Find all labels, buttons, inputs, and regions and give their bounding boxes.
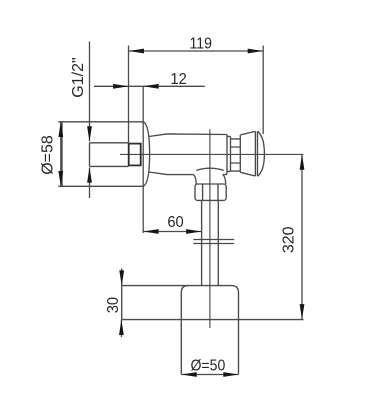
G1/2 leader line upper — [89, 42, 91, 142]
arrow 12 left (points right) — [113, 84, 128, 89]
push button cone — [240, 131, 255, 176]
body end ring band — [227, 135, 231, 175]
arrow 320 top — [300, 155, 305, 170]
threaded collar block — [231, 139, 241, 171]
hex nut facet lines — [203, 184, 218, 200]
dimension 12 line with tails — [94, 85, 205, 87]
dimension 60 line — [143, 231, 201, 233]
arrow 320 bottom — [300, 304, 305, 319]
svg-text:G1/2": G1/2" — [70, 57, 87, 97]
svg-text:Ø=58: Ø=58 — [39, 135, 56, 175]
arrow Ø50 right — [223, 372, 238, 377]
arrow 60 left — [143, 229, 158, 234]
cover bottom line with extension to 320 dim — [122, 319, 304, 321]
bottom cover box — [122, 286, 232, 320]
pipe break coupling lines — [193, 240, 234, 244]
push button cap ring lines — [255, 131, 257, 176]
push button dome edge — [258, 131, 265, 176]
arrow 30 top (points down) — [119, 270, 124, 285]
arrow 30 bottom (points up) — [119, 320, 124, 335]
dimension 119 line — [129, 50, 263, 52]
arrow Ø50 left — [181, 372, 196, 377]
arrow 119 right — [248, 49, 263, 54]
svg-text:119: 119 — [189, 34, 211, 52]
outlet boss left curve — [194, 175, 197, 184]
outlet pipe — [202, 200, 219, 285]
dimension Ø58 line — [60, 122, 62, 187]
outlet boss right curve — [223, 175, 226, 185]
wall flange rounded front face — [143, 122, 149, 187]
horizontal axis centerline — [120, 153, 304, 155]
dimension 30 upper line — [121, 269, 123, 286]
cover bell right side — [232, 286, 239, 375]
cover bell left side — [181, 286, 188, 375]
valve body top contour — [149, 134, 227, 137]
inlet pipe G1/2 — [90, 143, 129, 167]
thread square — [129, 144, 141, 166]
svg-text:60: 60 — [167, 213, 183, 231]
valve body bottom contour — [149, 172, 194, 175]
arrow G1/2 lower (points up) — [87, 167, 92, 182]
arrow 12 right (points left) — [143, 84, 158, 89]
vertical centerline of outlet — [209, 129, 211, 328]
arrow Ø58 top — [58, 122, 63, 137]
dimension 320 line — [301, 155, 303, 320]
extension line left of 119 / 12 — [128, 46, 130, 144]
svg-text:30: 30 — [104, 297, 122, 313]
arrow Ø58 bottom — [58, 171, 63, 186]
svg-text:Ø=50: Ø=50 — [190, 356, 225, 374]
arrow 119 left — [129, 49, 144, 54]
G1/2 leader line lower — [89, 168, 91, 199]
hex nut — [195, 184, 226, 200]
svg-text:320: 320 — [280, 226, 297, 253]
extension line right of 119 — [262, 46, 264, 135]
dimension Ø50 line — [181, 374, 238, 376]
outlet boss dome arc — [196, 168, 223, 170]
svg-text:12: 12 — [170, 70, 186, 88]
arrow 60 right — [186, 229, 201, 234]
wall flange box — [58, 122, 143, 187]
wall face extension line — [142, 86, 144, 233]
arrow G1/2 upper (points down) — [87, 126, 92, 141]
valve body bottom right segment — [223, 174, 227, 176]
dimension 30 lower line — [120, 320, 122, 337]
